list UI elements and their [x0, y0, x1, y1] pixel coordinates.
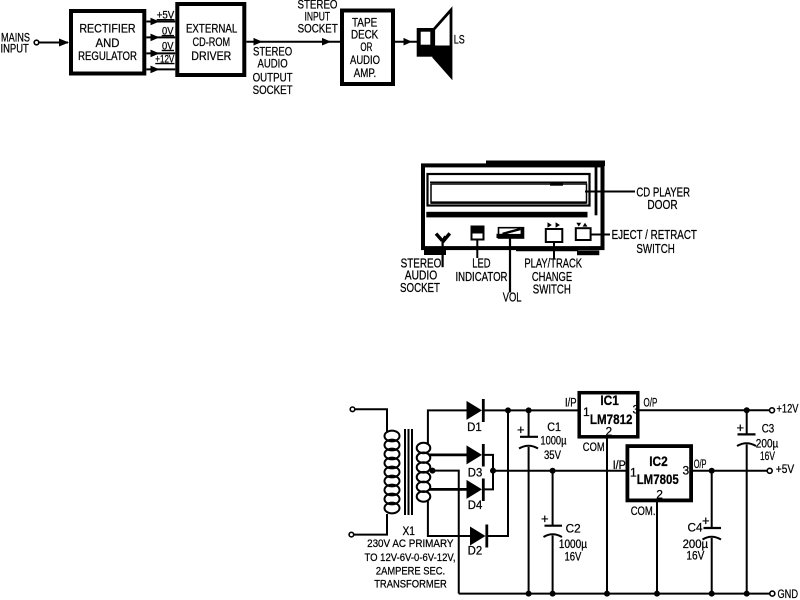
svg-text:SWITCH: SWITCH	[636, 242, 675, 256]
svg-text:SOCKET: SOCKET	[298, 21, 339, 35]
wire IC2 O/P to +5V	[691, 470, 767, 472]
terminal GND	[770, 591, 775, 596]
svg-text:DOOR: DOOR	[647, 198, 677, 212]
svg-text:1000µ: 1000µ	[559, 539, 587, 551]
svg-text:SOCKET: SOCKET	[400, 281, 440, 295]
IC1 LM7812	[579, 393, 638, 437]
svg-text:3: 3	[633, 402, 640, 416]
svg-text:1000µ: 1000µ	[540, 436, 566, 448]
svg-text:SWITCH: SWITCH	[533, 283, 571, 297]
svg-text:230V AC PRIMARY: 230V AC PRIMARY	[367, 538, 454, 550]
diode D4	[467, 479, 484, 502]
svg-text:INDICATOR: INDICATOR	[456, 270, 508, 284]
junction center tap	[430, 468, 436, 474]
svg-text:16V: 16V	[565, 551, 582, 563]
svg-text:LM7805: LM7805	[637, 471, 679, 487]
svg-text:AUDIO: AUDIO	[258, 57, 288, 71]
svg-text:RECTIFIER: RECTIFIER	[79, 21, 136, 35]
svg-text:LED: LED	[472, 257, 490, 271]
junction IC2 COM ground	[654, 591, 660, 597]
svg-text:VOL: VOL	[503, 290, 522, 304]
wire +12V	[146, 66, 175, 74]
wire center tap to ground rail	[433, 471, 459, 594]
wire secondary bottom to D2	[428, 500, 470, 536]
svg-text:INPUT: INPUT	[1, 42, 30, 56]
svg-text:TRANSFORMER: TRANSFORMER	[374, 579, 447, 591]
label STEREO AUDIO SOCKET	[400, 257, 442, 296]
terminal +12V	[770, 408, 775, 413]
eject/retract switch icon	[576, 223, 591, 240]
wire secondary tap to D3	[429, 453, 467, 456]
svg-text:35V: 35V	[544, 450, 561, 462]
svg-text:REGULATOR: REGULATOR	[78, 49, 137, 63]
wire IC2 COM to ground	[656, 501, 658, 594]
label C4 value	[683, 521, 709, 563]
wire +5V	[146, 18, 175, 26]
svg-text:16V: 16V	[760, 451, 775, 463]
wire secondary top to rail	[428, 410, 467, 444]
svg-text:+5V: +5V	[776, 462, 794, 476]
wire 0V (2)	[146, 50, 175, 58]
svg-text:C2: C2	[566, 521, 581, 535]
junction C1 top rail	[526, 407, 532, 413]
terminal +5V	[767, 468, 772, 473]
IC2 LM7805	[627, 446, 691, 500]
wire stereo audio output to tape deck	[246, 38, 340, 46]
svg-text:LS: LS	[454, 32, 465, 46]
junction C4 ground	[709, 591, 715, 597]
svg-text:AUDIO: AUDIO	[350, 53, 380, 67]
svg-text:+: +	[702, 513, 710, 528]
junction IC1 COM ground	[604, 591, 610, 597]
junction D3/D4	[490, 468, 496, 474]
wire IC1 COM to ground	[606, 439, 608, 594]
svg-text:C3: C3	[762, 421, 775, 435]
label transformer description	[365, 538, 456, 590]
svg-text:GND: GND	[778, 587, 799, 600]
block EXTERNAL CD-ROM DRIVER	[177, 4, 244, 75]
svg-text:TO 12V-6V-0-6V-12V,: TO 12V-6V-0-6V-12V,	[365, 552, 456, 564]
svg-text:1: 1	[583, 405, 590, 419]
label CD PLAYER DOOR	[636, 186, 690, 212]
svg-text:COM.: COM.	[631, 506, 656, 518]
speaker LS	[417, 10, 451, 77]
diode D2	[470, 525, 487, 548]
junction C4 +5V rail	[709, 468, 715, 474]
wire D3 cathode to mid rail	[485, 455, 494, 471]
label PLAY/TRACK CHANGE SWITCH	[524, 257, 582, 297]
svg-text:D3: D3	[468, 468, 483, 480]
svg-text:+: +	[517, 422, 525, 437]
transformer X1 primary winding	[385, 431, 400, 514]
svg-text:D1: D1	[467, 422, 482, 434]
label 0V (1)	[162, 26, 174, 38]
label LED INDICATOR	[456, 257, 508, 284]
wire IC1 O/P to +12V	[640, 409, 770, 411]
LED indicator icon	[471, 226, 485, 259]
svg-text:I/P: I/P	[613, 460, 626, 472]
capacitor C1	[517, 410, 538, 593]
wire tape deck to speaker	[395, 38, 417, 46]
svg-text:C4: C4	[688, 521, 703, 535]
diode D3	[467, 444, 484, 467]
block RECTIFIER AND REGULATOR	[71, 11, 144, 74]
svg-text:OR: OR	[360, 40, 372, 54]
label C1 value	[540, 420, 566, 462]
node MAINS INPUT label	[1, 30, 31, 55]
leader line EJECT/RETRACT	[591, 234, 610, 236]
svg-text:D2: D2	[468, 545, 483, 557]
svg-text:O/P: O/P	[694, 459, 707, 471]
svg-text:IC2: IC2	[649, 454, 668, 469]
svg-text:+: +	[737, 420, 745, 435]
svg-text:16V: 16V	[686, 551, 704, 563]
svg-text:COM: COM	[583, 442, 605, 454]
CD player feet	[424, 248, 599, 255]
capacitor C4	[702, 471, 721, 594]
svg-text:AMP.: AMP.	[354, 66, 377, 80]
junction C2 ground	[550, 591, 556, 597]
svg-text:1: 1	[630, 466, 637, 480]
junction C3 ground	[744, 591, 750, 597]
CD player case	[423, 161, 605, 249]
svg-text:SOCKET: SOCKET	[253, 83, 294, 97]
label C3 value	[756, 421, 779, 463]
label +12V	[155, 53, 174, 65]
label C2 value	[559, 521, 587, 563]
play/track change switch icon	[546, 222, 563, 258]
diode D1	[467, 399, 484, 422]
junction C2 mid rail	[550, 468, 556, 474]
junction riser top rail	[505, 407, 511, 413]
svg-text:+12V: +12V	[777, 402, 799, 416]
block TAPE DECK OR AUDIO AMP	[342, 11, 393, 85]
svg-text:O/P: O/P	[644, 397, 658, 409]
ground rail	[459, 593, 770, 595]
mid rail D3/D4 junction to IC2	[493, 470, 626, 472]
svg-text:IC1: IC1	[600, 393, 619, 408]
junction C1 ground	[526, 591, 532, 597]
label STEREO INPUT SOCKET	[298, 0, 339, 35]
svg-text:200µ: 200µ	[756, 439, 779, 451]
wire primary top	[355, 409, 387, 432]
svg-text:X1: X1	[402, 526, 415, 538]
terminal mains input	[34, 40, 39, 45]
svg-text:I/P: I/P	[565, 397, 577, 409]
leader line CD PLAYER DOOR	[585, 191, 635, 193]
transformer X1 core	[405, 429, 412, 515]
capacitor C3	[737, 410, 757, 593]
terminal mains live	[350, 407, 355, 412]
wire D4 cathode to mid rail	[485, 471, 494, 490]
svg-text:2: 2	[656, 488, 663, 502]
svg-text:PLAY/TRACK: PLAY/TRACK	[524, 257, 582, 271]
wire primary bottom	[354, 514, 387, 535]
svg-text:2AMPERE SEC.: 2AMPERE SEC.	[376, 565, 445, 577]
CD player door	[426, 174, 589, 217]
svg-text:EJECT / RETRACT: EJECT / RETRACT	[612, 228, 698, 242]
capacitor C2	[541, 471, 562, 594]
wire 0V (1)	[146, 34, 175, 42]
junction C3 top rail	[744, 407, 750, 413]
label +5V	[157, 9, 175, 21]
label 0V (2)	[162, 41, 174, 53]
svg-text:+: +	[541, 511, 549, 526]
svg-text:3: 3	[683, 464, 690, 478]
svg-text:CD-ROM: CD-ROM	[193, 35, 231, 49]
svg-text:2: 2	[606, 424, 613, 438]
label EJECT / RETRACT SWITCH	[612, 228, 698, 256]
svg-text:DRIVER: DRIVER	[191, 49, 231, 63]
wire secondary tap to D4	[429, 488, 467, 491]
svg-text:200µ: 200µ	[683, 539, 709, 551]
wire D2 cathode riser to top rail	[488, 410, 508, 536]
transformer X1 secondary winding	[417, 443, 431, 502]
label STEREO AUDIO OUTPUT SOCKET	[253, 44, 294, 97]
svg-text:D4: D4	[468, 500, 483, 512]
stereo audio socket icon	[436, 233, 450, 267]
wire top rail D1 to IC1	[485, 409, 578, 411]
svg-text:EXTERNAL: EXTERNAL	[186, 21, 238, 35]
terminal mains neutral	[349, 532, 354, 537]
wire mains input to rectifier	[39, 39, 69, 47]
svg-text:C1: C1	[547, 420, 561, 434]
volume control icon	[497, 228, 524, 293]
